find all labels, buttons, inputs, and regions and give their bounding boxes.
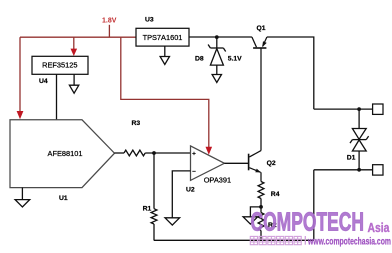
svg-text:TPS7A1601: TPS7A1601 — [143, 33, 183, 42]
arrow into U4 — [71, 49, 78, 56]
svg-text:U3: U3 — [145, 17, 154, 24]
plus input mark — [192, 152, 195, 155]
ground (U3) — [164, 46, 166, 56]
svg-text:R3: R3 — [132, 120, 141, 127]
ground (D8) — [212, 75, 221, 83]
svg-text:U2: U2 — [186, 187, 195, 194]
wire junction to ground — [250, 207, 261, 217]
node dot R1 tap — [152, 151, 156, 155]
wire Q1 emitter to output — [267, 37, 314, 109]
svg-text:5.1V: 5.1V — [228, 56, 242, 63]
TVS diode D1 — [350, 109, 369, 170]
wire R4 to junction — [260, 199, 262, 213]
node dot top rail — [357, 107, 361, 111]
ground (U4) — [73, 74, 75, 85]
svg-text:OPA391: OPA391 — [204, 175, 231, 184]
node junction dot — [215, 35, 219, 39]
svg-text:U4: U4 — [39, 78, 48, 85]
resistor R2 — [258, 213, 264, 231]
wire U4 output to U1 — [56, 74, 58, 120]
wire U3 output — [189, 36, 252, 38]
ground (U2) — [165, 218, 180, 225]
arrow into U2 — [206, 147, 213, 155]
resistor R3 — [124, 150, 145, 156]
ground (R4/R2 node) — [243, 217, 258, 224]
svg-text:www.compotechasia.com: www.compotechasia.com — [307, 235, 391, 247]
AFE U1 AFE88101 — [10, 120, 115, 188]
transistor Q1 — [252, 37, 267, 151]
svg-text:COMPOTECH: COMPOTECH — [251, 207, 364, 236]
svg-text:D1: D1 — [347, 154, 356, 161]
svg-text:D8: D8 — [195, 56, 204, 63]
terminal square bottom — [373, 165, 383, 175]
ground (U1) — [21, 188, 23, 200]
node 1.8V red power rail — [20, 25, 209, 148]
voltage reference U4 REF35125 — [32, 56, 88, 74]
svg-text:Q1: Q1 — [257, 25, 266, 32]
op-amp U2 OPA391 — [191, 146, 225, 181]
node dot lower rail — [357, 168, 361, 172]
resistor R1 — [151, 209, 157, 224]
svg-text:Asia: Asia — [368, 222, 390, 235]
wire R1 to bottom rail — [153, 224, 155, 240]
svg-text:U1: U1 — [59, 195, 68, 202]
node junction dot — [259, 205, 263, 209]
wire lower rail — [314, 169, 373, 171]
terminal square top — [373, 104, 383, 114]
wire down to R1 — [153, 153, 155, 209]
watermark chinese characters — [250, 236, 305, 245]
wire R2 to bottom rail — [260, 231, 262, 241]
minus input mark — [192, 170, 195, 172]
resistor R4 — [258, 182, 264, 199]
wire right vertical to bottom rail — [313, 170, 315, 241]
wire top rail — [314, 108, 373, 110]
transistor Q2 — [249, 151, 261, 182]
watermark COMPOTECH — [251, 207, 390, 236]
svg-text:AFE88101: AFE88101 — [48, 149, 83, 158]
svg-text:1.8V: 1.8V — [102, 17, 117, 24]
zener diode D8 — [208, 37, 226, 74]
wire inverting input to ground — [172, 171, 190, 218]
arrow into U1 — [17, 111, 24, 119]
svg-text:Q2: Q2 — [267, 160, 276, 167]
regulator U3 TPS7A1601 — [136, 28, 189, 46]
wire bottom rail — [154, 239, 314, 241]
svg-text:REF35125: REF35125 — [42, 61, 77, 70]
svg-text:R4: R4 — [271, 191, 280, 198]
wire U1 output to R3 — [115, 152, 125, 154]
svg-text:R1: R1 — [143, 206, 152, 213]
wire opamp output to Q2 base — [224, 162, 248, 164]
wire R3 to opamp — [145, 152, 190, 154]
